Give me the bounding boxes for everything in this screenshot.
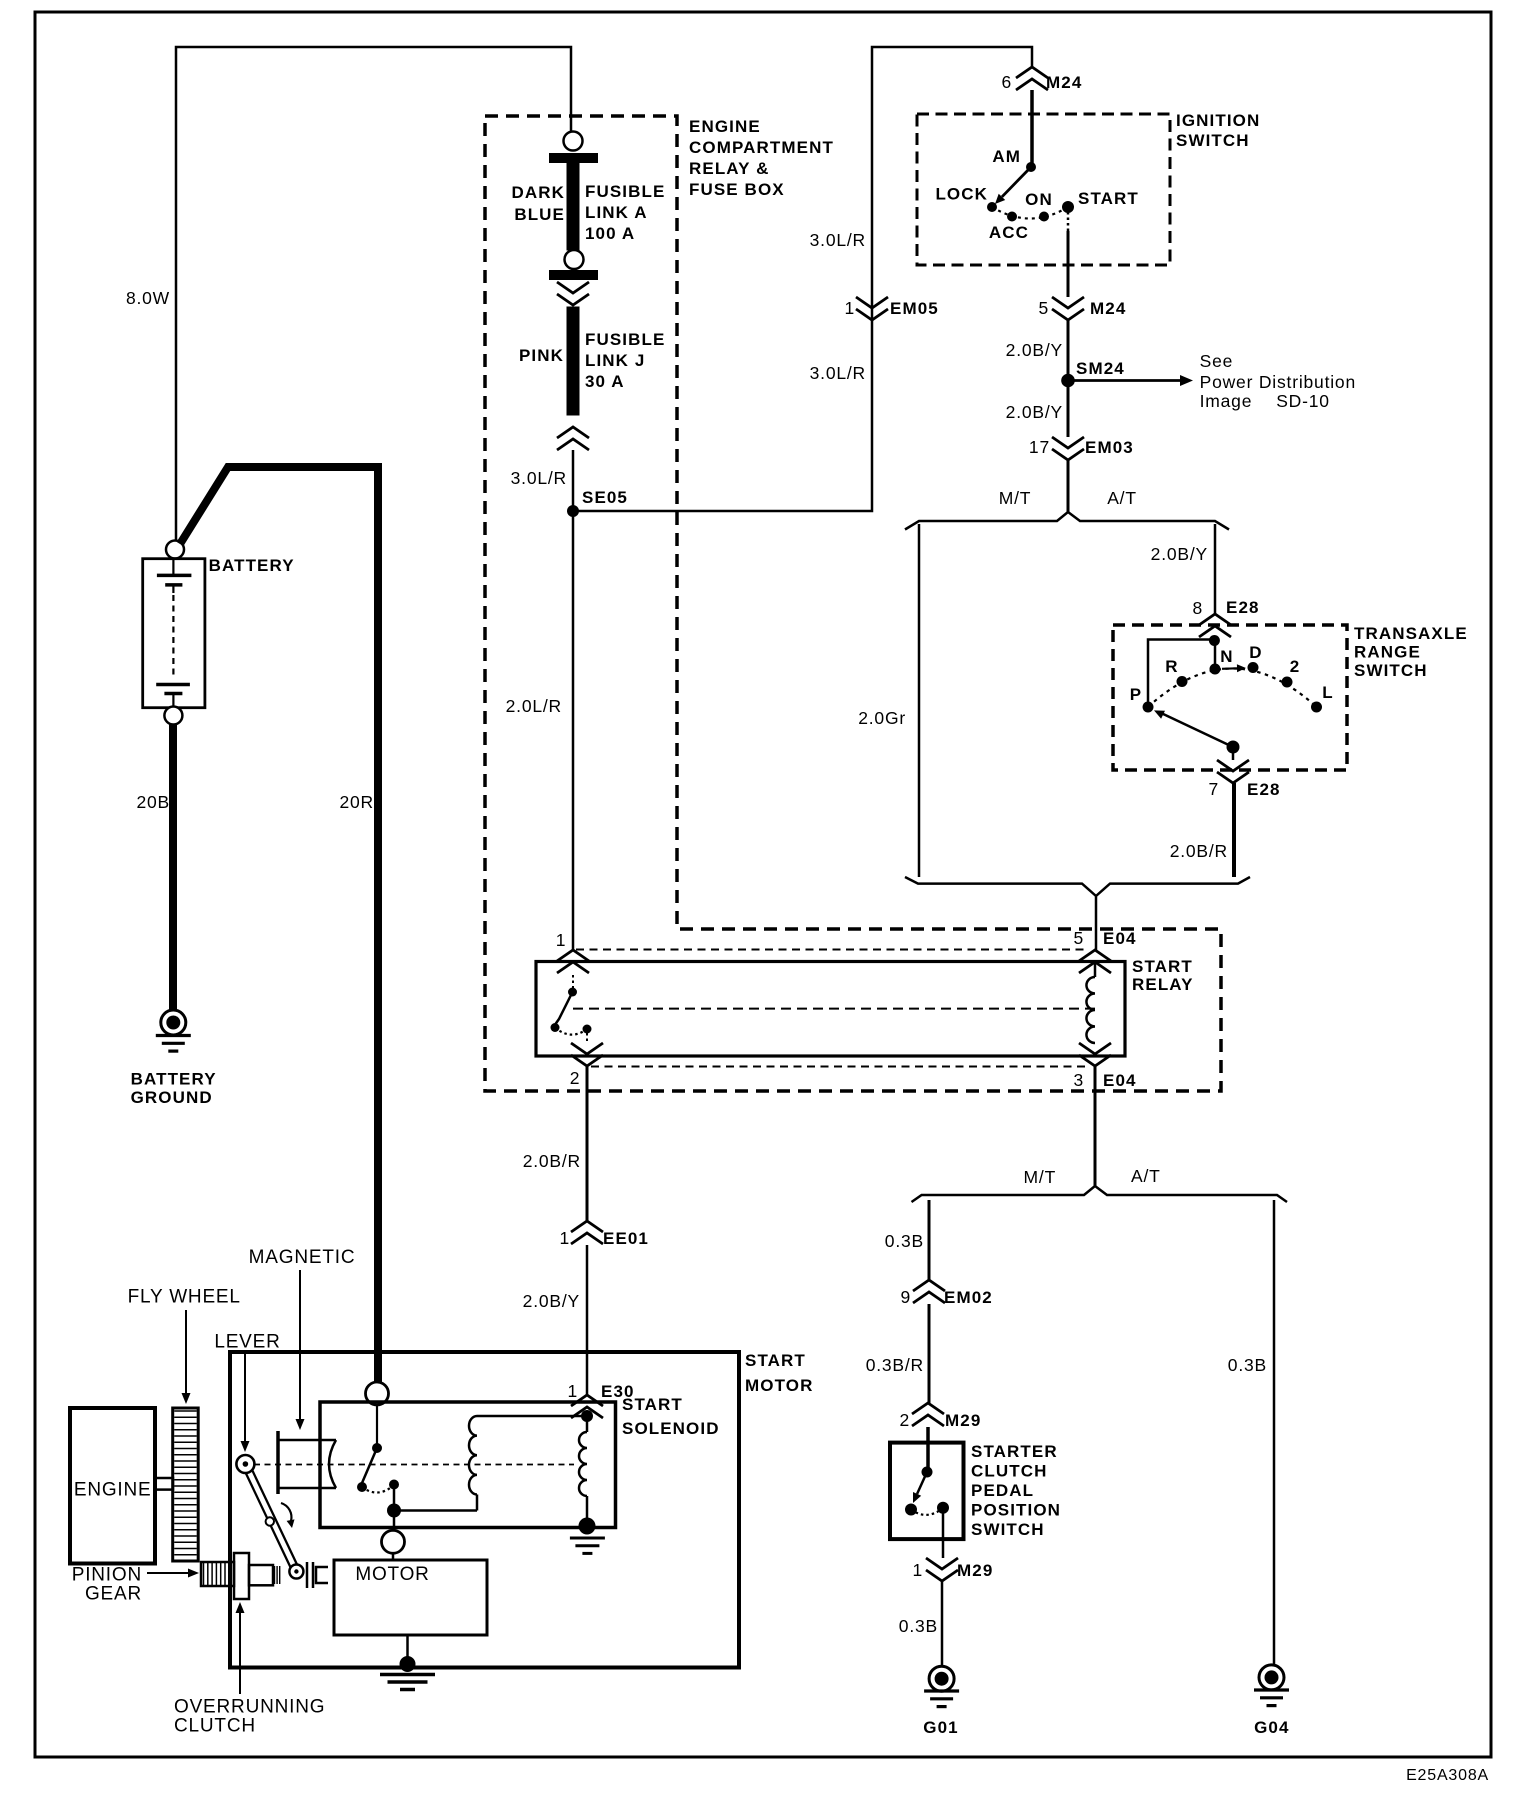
solenoid ground symbol <box>570 1537 605 1540</box>
wire EM03 to M/T-A/T split <box>1067 460 1070 513</box>
svg-text:POSITION: POSITION <box>971 1501 1061 1520</box>
svg-text:AM: AM <box>992 147 1021 166</box>
wire 0.3B/R EM02 to M29 <box>928 1304 931 1404</box>
wire M/T branch 2.0Gr <box>918 524 921 877</box>
svg-text:ENGINE: ENGINE <box>74 1480 152 1501</box>
relay switch common contact <box>568 988 577 997</box>
wire entry to N <box>1214 645 1217 664</box>
lever mid hole <box>266 1517 274 1525</box>
svg-text:2.0B/Y: 2.0B/Y <box>1006 402 1063 422</box>
svg-text:See: See <box>1200 351 1234 371</box>
svg-text:9: 9 <box>900 1287 911 1307</box>
relay mechanical link (dashed) <box>573 1008 1095 1010</box>
node ON <box>1039 212 1049 222</box>
svg-text:LINK J: LINK J <box>585 351 645 370</box>
svg-text:RANGE: RANGE <box>1354 643 1421 662</box>
svg-text:IGNITION: IGNITION <box>1176 111 1260 130</box>
svg-text:E28: E28 <box>1226 598 1260 617</box>
wire 2.0B/R to merge <box>1232 783 1236 877</box>
wire 8.0W battery feed (top-left run) <box>176 47 571 540</box>
battery positive terminal <box>166 541 184 559</box>
svg-text:E04: E04 <box>1103 929 1137 948</box>
svg-text:RELAY: RELAY <box>1132 975 1194 994</box>
wire pedal switch to M29-1 <box>942 1508 945 1558</box>
svg-text:L: L <box>1322 683 1333 702</box>
svg-text:1: 1 <box>844 298 855 318</box>
pedal switch arm <box>917 1472 927 1494</box>
wire thick battery positive to 20R feed <box>180 467 378 1382</box>
contact 2 <box>1282 677 1293 688</box>
wire 2.0B/Y EE01 to E30 <box>586 1245 589 1395</box>
relay coil <box>1086 977 1095 1043</box>
svg-text:TRANSAXLE: TRANSAXLE <box>1354 624 1468 643</box>
battery negative terminal <box>164 707 182 725</box>
transaxle entry node <box>1209 635 1220 646</box>
svg-text:START: START <box>1078 189 1139 208</box>
svg-text:1: 1 <box>912 1560 923 1580</box>
svg-text:EE01: EE01 <box>603 1229 649 1248</box>
svg-text:D: D <box>1249 643 1262 662</box>
relay coil top lead <box>1094 962 1097 977</box>
svg-text:3.0L/R: 3.0L/R <box>810 230 866 250</box>
svg-text:2: 2 <box>570 1068 581 1088</box>
pedal switch open contact <box>905 1504 917 1516</box>
svg-text:M/T: M/T <box>1024 1167 1057 1187</box>
svg-text:E28: E28 <box>1247 780 1281 799</box>
svg-text:SM24: SM24 <box>1076 359 1125 378</box>
svg-text:COMPARTMENT: COMPARTMENT <box>689 138 834 157</box>
wire into pedal switch <box>926 1427 930 1472</box>
solenoid B contact lead <box>376 1405 378 1444</box>
engine compartment relay & fuse box (dashed outline) <box>485 116 1221 1091</box>
svg-text:0.3B: 0.3B <box>899 1616 938 1636</box>
connector EM05 pin 1 <box>856 297 888 320</box>
svg-text:R: R <box>1165 657 1178 676</box>
svg-text:PINION: PINION <box>72 1565 142 1586</box>
svg-text:EM02: EM02 <box>944 1288 993 1307</box>
battery feed terminal circle <box>366 1382 389 1405</box>
svg-text:E30: E30 <box>601 1382 635 1401</box>
connector E04 pin 3 chevrons <box>1079 1043 1111 1066</box>
wire SM24 to EM03 <box>1067 387 1070 437</box>
flywheel hatch <box>174 1410 197 1412</box>
lever arm <box>242 1466 293 1574</box>
connector M24 pin 5 <box>1052 297 1084 320</box>
svg-text:3.0L/R: 3.0L/R <box>511 468 567 488</box>
wire A/T branch to E28 <box>1214 524 1217 615</box>
ground G01 <box>929 1666 954 1691</box>
node AM <box>1026 162 1036 172</box>
connector E30 pin 1 <box>571 1395 603 1418</box>
connector M29 pin 1 <box>926 1558 958 1581</box>
node SM24 <box>1061 374 1075 388</box>
transaxle selector arc (dashed) <box>1148 669 1317 708</box>
svg-text:LEVER: LEVER <box>214 1332 280 1353</box>
crankshaft link <box>155 1478 173 1490</box>
lever bottom pivot <box>289 1565 303 1579</box>
start relay box <box>536 962 1125 1057</box>
magnetic plunger <box>276 1431 280 1494</box>
wire 3.0L/R link J to SE05 <box>572 450 575 511</box>
relay pin 2 chevrons <box>571 1043 603 1066</box>
svg-text:0.3B: 0.3B <box>885 1231 924 1251</box>
fusible link A terminal circle <box>564 132 583 151</box>
motor shaft coupling <box>306 1562 309 1588</box>
svg-text:M24: M24 <box>1090 299 1126 318</box>
wire output to E28-7 <box>1232 747 1235 760</box>
svg-text:2: 2 <box>899 1410 910 1430</box>
svg-text:3: 3 <box>1073 1070 1084 1090</box>
svg-text:20R: 20R <box>339 792 374 812</box>
wire 2.0B/R relay to EE01 <box>586 1066 589 1221</box>
wire 0.3B to G01 <box>941 1581 944 1666</box>
svg-text:7: 7 <box>1208 779 1219 799</box>
relay switch feed (dotted) <box>572 975 574 988</box>
connector E28 pin 8 <box>1199 614 1231 637</box>
solenoid switch open contact <box>357 1482 367 1492</box>
svg-text:SE05: SE05 <box>582 488 628 507</box>
flywheel <box>173 1408 199 1561</box>
svg-text:FUSE BOX: FUSE BOX <box>689 180 785 199</box>
ignition switch box (dashed) <box>917 114 1170 265</box>
battery B1 <box>143 559 205 708</box>
contact N <box>1210 664 1221 675</box>
svg-text:LOCK: LOCK <box>935 185 988 204</box>
E04 connector dashed line bottom <box>591 1066 1086 1068</box>
svg-text:RELAY &: RELAY & <box>689 159 769 178</box>
svg-text:N: N <box>1220 647 1233 666</box>
svg-text:MAGNETIC: MAGNETIC <box>249 1247 356 1268</box>
svg-text:SWITCH: SWITCH <box>1176 131 1250 150</box>
connector chevrons below link J <box>557 427 589 450</box>
solenoid axis (dashed) <box>254 1464 574 1466</box>
svg-text:2.0B/Y: 2.0B/Y <box>523 1291 580 1311</box>
relay switch throw arc (dotted) <box>555 1028 587 1035</box>
svg-text:5: 5 <box>1073 928 1084 948</box>
svg-text:GROUND: GROUND <box>131 1088 213 1107</box>
connector E04 pin 5 <box>1079 950 1111 973</box>
svg-text:100 A: 100 A <box>585 224 635 243</box>
svg-text:FUSIBLE: FUSIBLE <box>585 182 665 201</box>
ignition switch arm AM to LOCK <box>1002 167 1031 197</box>
arrow SM24 to power distribution <box>1068 379 1180 382</box>
arrow MAGNETIC <box>299 1270 301 1419</box>
svg-text:GEAR: GEAR <box>85 1584 142 1605</box>
svg-text:E04: E04 <box>1103 1071 1137 1090</box>
svg-text:A/T: A/T <box>1131 1166 1161 1186</box>
start solenoid box <box>320 1402 616 1528</box>
pinion gear hatch <box>203 1563 205 1585</box>
svg-text:BATTERY: BATTERY <box>209 556 295 575</box>
merge brace M/T A/T to relay <box>905 877 1250 950</box>
node START <box>1062 201 1074 213</box>
svg-text:2.0B/R: 2.0B/R <box>1170 841 1228 861</box>
svg-text:0.3B/R: 0.3B/R <box>866 1355 924 1375</box>
wire 2.0L/R SE05 to start relay pin 1 <box>572 511 575 950</box>
connector E28 pin 7 <box>1217 760 1249 783</box>
svg-text:0.3B: 0.3B <box>1228 1355 1267 1375</box>
svg-text:EM03: EM03 <box>1085 438 1134 457</box>
svg-text:E25A308A: E25A308A <box>1406 1767 1489 1784</box>
solenoid output lead <box>393 1485 396 1511</box>
wire M24-5 to SM24 <box>1067 320 1070 375</box>
svg-text:LINK A: LINK A <box>585 203 648 222</box>
svg-text:PEDAL: PEDAL <box>971 1481 1034 1500</box>
svg-text:SWITCH: SWITCH <box>971 1520 1045 1539</box>
motor ground node <box>400 1656 416 1672</box>
svg-text:2.0B/Y: 2.0B/Y <box>1151 544 1208 564</box>
svg-text:BATTERY: BATTERY <box>131 1070 217 1089</box>
svg-text:2.0B/R: 2.0B/R <box>523 1151 581 1171</box>
contact R <box>1177 676 1188 687</box>
svg-text:SOLENOID: SOLENOID <box>622 1419 720 1438</box>
svg-text:MOTOR: MOTOR <box>745 1376 813 1395</box>
wire 0.3B to EM02 <box>928 1200 931 1281</box>
node E30 entry <box>581 1410 593 1422</box>
svg-text:STARTER: STARTER <box>971 1442 1058 1461</box>
solenoid switch throw arc (dotted) <box>362 1485 394 1493</box>
solenoid switch arm <box>362 1448 377 1483</box>
motor ground symbol <box>380 1673 435 1677</box>
svg-text:1: 1 <box>559 1228 570 1248</box>
hold-in coil <box>586 1416 589 1432</box>
svg-text:Image SD-10: Image SD-10 <box>1200 391 1330 411</box>
svg-text:17: 17 <box>1029 437 1050 457</box>
fusible link J 30A (pink) <box>567 307 579 415</box>
relay switch output contact <box>583 1025 592 1034</box>
node LOCK <box>987 202 997 212</box>
svg-text:P: P <box>1130 685 1142 704</box>
contact D <box>1248 662 1259 673</box>
arrow FLY WHEEL <box>185 1310 187 1393</box>
M terminal circle <box>382 1530 405 1553</box>
svg-text:G04: G04 <box>1254 1718 1289 1737</box>
svg-text:1: 1 <box>556 930 567 950</box>
connector EE01 pin 1 <box>571 1221 603 1244</box>
svg-text:5: 5 <box>1038 298 1049 318</box>
lower M/T A/T split brace <box>912 1186 1288 1202</box>
svg-text:8.0W: 8.0W <box>126 288 170 308</box>
relay output dotted lead <box>586 1033 588 1043</box>
svg-text:6: 6 <box>1001 72 1012 92</box>
wire SE05 to ignition feed riser <box>573 47 1032 511</box>
svg-text:8: 8 <box>1192 598 1203 618</box>
wire M24-6 to AM <box>1030 90 1034 167</box>
svg-text:ON: ON <box>1025 190 1053 209</box>
svg-text:3.0L/R: 3.0L/R <box>810 363 866 383</box>
svg-text:A/T: A/T <box>1107 488 1137 508</box>
pull-in coil <box>469 1416 477 1495</box>
wire junction to pull-in coil <box>394 1509 477 1512</box>
E04 connector dashed line top <box>576 949 1086 951</box>
arrow OVERRUNNING CLUTCH <box>239 1613 241 1694</box>
solenoid switch output contact <box>389 1480 399 1490</box>
battery ground symbol <box>161 1010 186 1035</box>
connector M29 pin 2 <box>912 1403 944 1426</box>
svg-text:START: START <box>745 1351 806 1370</box>
svg-text:SWITCH: SWITCH <box>1354 661 1428 680</box>
wire pull-in coil top to E30 node <box>477 1415 587 1418</box>
wire entry to P contact <box>1148 640 1214 704</box>
svg-text:ENGINE: ENGINE <box>689 117 761 136</box>
svg-text:OVERRUNNING: OVERRUNNING <box>174 1697 325 1718</box>
svg-text:Power Distribution: Power Distribution <box>1200 372 1356 392</box>
wire START down (dotted then solid) <box>1067 212 1070 231</box>
svg-text:DARK: DARK <box>511 183 565 202</box>
wire E04-3 to lower split <box>1094 1066 1097 1187</box>
transaxle range switch box (dashed) <box>1113 625 1347 770</box>
battery internal plates <box>172 560 174 575</box>
svg-text:START: START <box>1132 957 1193 976</box>
svg-text:CLUTCH: CLUTCH <box>971 1462 1047 1481</box>
svg-text:M24: M24 <box>1046 73 1082 92</box>
svg-text:BLUE: BLUE <box>514 205 565 224</box>
engine block <box>70 1408 155 1564</box>
svg-text:CLUTCH: CLUTCH <box>174 1716 256 1737</box>
ignition rotary arc (dashed) <box>992 207 1068 219</box>
pedal switch common contact <box>922 1467 933 1478</box>
wire 0.3B A/T to G04 <box>1273 1200 1276 1665</box>
svg-text:30 A: 30 A <box>585 372 625 391</box>
connector EM02 pin 9 <box>913 1280 945 1303</box>
start motor box <box>230 1352 739 1668</box>
contact P <box>1143 702 1154 713</box>
relay pin 1 chevrons <box>557 950 589 973</box>
pedal switch throw arc (dotted) <box>911 1508 943 1515</box>
svg-text:2: 2 <box>1290 657 1301 676</box>
lever pivot <box>236 1455 254 1473</box>
fusible link A 100A (dark blue) <box>549 153 598 163</box>
M/T A/T split brace <box>905 512 1229 530</box>
lever rotation arrow <box>281 1503 291 1521</box>
overrunning clutch body <box>234 1553 249 1599</box>
node ACC <box>1007 212 1017 222</box>
svg-text:M29: M29 <box>957 1561 993 1580</box>
connector chevrons below link A <box>557 282 589 305</box>
contact L <box>1311 702 1322 713</box>
svg-text:M29: M29 <box>945 1411 981 1430</box>
pedal switch output contact <box>937 1502 949 1514</box>
svg-text:2.0Gr: 2.0Gr <box>858 708 906 728</box>
motor ground lead <box>406 1635 409 1660</box>
arrow PINION GEAR <box>147 1572 188 1574</box>
svg-text:G01: G01 <box>923 1718 958 1737</box>
relay switch arm <box>556 992 573 1024</box>
svg-text:2.0L/R: 2.0L/R <box>506 696 562 716</box>
wire 20B battery ground lead <box>169 725 177 1011</box>
svg-text:FUSIBLE: FUSIBLE <box>585 330 665 349</box>
svg-text:PINK: PINK <box>519 346 564 365</box>
svg-text:FLY WHEEL: FLY WHEEL <box>128 1287 241 1308</box>
svg-text:ACC: ACC <box>989 223 1029 242</box>
connector M24 pin 6 <box>1016 67 1048 90</box>
pinion gear <box>201 1562 234 1586</box>
transaxle wiper arm with arrow to P <box>1160 713 1233 748</box>
svg-text:20B: 20B <box>136 792 170 812</box>
arrow N to D <box>1222 667 1237 670</box>
motor box <box>334 1560 487 1635</box>
svg-text:M/T: M/T <box>999 488 1032 508</box>
node M terminal junction <box>387 1504 401 1518</box>
arrow LEVER <box>244 1354 246 1441</box>
transaxle output node <box>1227 741 1240 754</box>
svg-text:2.0B/Y: 2.0B/Y <box>1006 340 1063 360</box>
relay switch open contact <box>551 1023 560 1032</box>
svg-text:EM05: EM05 <box>890 299 939 318</box>
solenoid switch common contact <box>372 1443 382 1453</box>
node SE05 <box>567 505 579 517</box>
connector EM03 pin 17 <box>1052 437 1084 460</box>
svg-text:MOTOR: MOTOR <box>355 1564 429 1585</box>
starter clutch pedal position switch box <box>890 1443 964 1540</box>
solenoid ground node <box>579 1518 596 1535</box>
ground G04 <box>1259 1665 1284 1690</box>
svg-text:1: 1 <box>567 1381 578 1401</box>
